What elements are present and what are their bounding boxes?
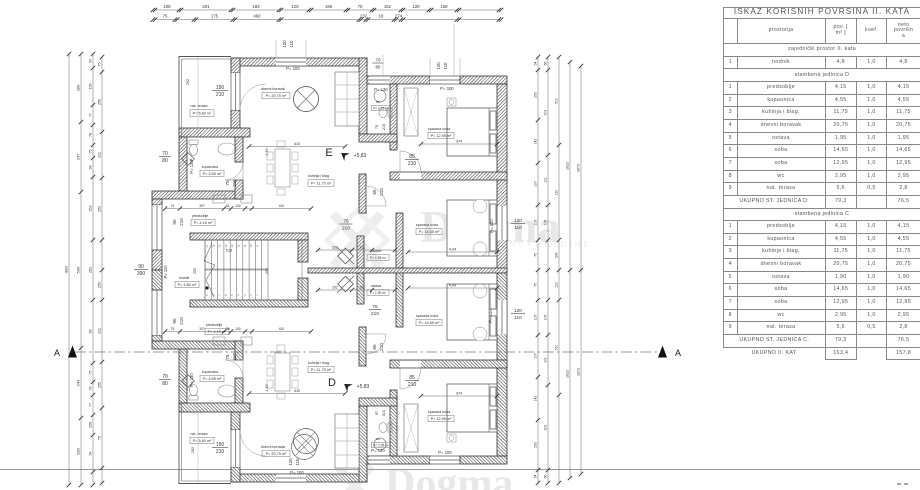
- svg-text:240: 240: [555, 252, 559, 258]
- svg-text:P= 4,55 m²: P= 4,55 m²: [203, 172, 222, 176]
- svg-text:4: 4: [237, 294, 241, 296]
- svg-text:210: 210: [408, 161, 417, 167]
- svg-text:P= 12,95 m²: P= 12,95 m²: [431, 134, 453, 138]
- svg-text:54: 54: [89, 452, 93, 456]
- svg-text:253: 253: [89, 206, 93, 212]
- svg-text:P= 20,75 m²: P= 20,75 m²: [266, 94, 288, 98]
- svg-text:77: 77: [89, 113, 93, 117]
- svg-text:1023: 1023: [566, 370, 570, 378]
- svg-text:120: 120: [555, 282, 559, 288]
- wardrobe bedroom E1 (E): [404, 88, 418, 136]
- svg-text:132: 132: [360, 14, 368, 19]
- svg-text:880: 880: [64, 265, 69, 272]
- svg-text:75: 75: [171, 204, 175, 208]
- svg-text:120: 120: [555, 190, 559, 196]
- bedroom E2 west wall lower (E): [396, 213, 403, 268]
- svg-text:210: 210: [232, 179, 237, 187]
- svg-text:110: 110: [443, 62, 448, 70]
- svg-text:4,49: 4,49: [265, 385, 269, 392]
- svg-text:P= 110: P= 110: [163, 265, 168, 279]
- svg-text:253: 253: [193, 268, 197, 274]
- svg-text:210: 210: [371, 311, 379, 317]
- door arc bedroom E1 (E): [400, 151, 421, 172]
- watermark dogma logo + text: [327, 201, 591, 490]
- window north-left 120/110 (E): [276, 58, 306, 66]
- svg-text:101: 101: [359, 246, 365, 250]
- svg-text:210: 210: [232, 353, 237, 361]
- svg-text:E: E: [325, 147, 332, 159]
- kitchen appliances row (E): [213, 195, 252, 203]
- svg-text:75: 75: [534, 253, 538, 257]
- svg-text:75: 75: [98, 436, 102, 440]
- svg-text:A: A: [675, 348, 681, 358]
- svg-text:210: 210: [379, 343, 384, 351]
- stair mid rail: [205, 269, 268, 270]
- svg-text:75: 75: [225, 354, 230, 360]
- svg-text:100: 100: [235, 204, 241, 208]
- bed bedroom E1 (E): [447, 108, 497, 156]
- svg-text:159: 159: [89, 422, 93, 428]
- svg-text:NEKRETNINE: NEKRETNINE: [510, 240, 592, 249]
- svg-text:3: 3: [243, 294, 247, 296]
- svg-text:28: 28: [226, 327, 230, 331]
- sheet edge line: [0, 469, 920, 471]
- svg-text:P= 4,15 m²: P= 4,15 m²: [208, 330, 227, 334]
- svg-text:80: 80: [376, 65, 381, 70]
- svg-text:nat. terasa: nat. terasa: [191, 432, 208, 436]
- svg-text:99: 99: [89, 330, 93, 334]
- armchair bedroom E2 b (E): [473, 242, 487, 256]
- svg-text:410: 410: [294, 142, 300, 146]
- svg-text:210: 210: [382, 124, 386, 130]
- svg-text:P= 100: P= 100: [488, 309, 493, 323]
- svg-text:P= 11,75 m²: P= 11,75 m²: [311, 182, 332, 186]
- right chain 4: [566, 60, 573, 480]
- svg-text:75: 75: [171, 327, 175, 331]
- svg-text:65: 65: [372, 189, 377, 195]
- svg-text:203: 203: [544, 110, 548, 116]
- svg-text:P= 100: P= 100: [438, 450, 452, 455]
- svg-text:70: 70: [376, 58, 381, 63]
- right chain 2: [544, 55, 551, 485]
- stair treads lower flight: [205, 270, 268, 300]
- svg-text:280: 280: [76, 84, 81, 91]
- corridor entry door diamond E (E): [337, 247, 354, 264]
- svg-text:120: 120: [291, 4, 299, 9]
- bedroom divider wall E (E): [390, 172, 507, 180]
- svg-text:predsoblje: predsoblje: [206, 323, 223, 327]
- svg-text:75: 75: [89, 150, 93, 154]
- svg-text:+5,83: +5,83: [354, 153, 367, 159]
- interior dim 374 E1: [419, 140, 499, 147]
- west facade wall mid pier (E): [152, 250, 162, 270]
- svg-text:70: 70: [162, 151, 168, 157]
- terrace door pier upper (E): [231, 58, 240, 73]
- svg-text:210: 210: [179, 218, 184, 226]
- svg-text:4,04: 4,04: [449, 284, 456, 288]
- west facade wall top pier (E): [152, 199, 162, 205]
- svg-text:14: 14: [224, 244, 228, 247]
- stair walk line: [204, 243, 215, 297]
- svg-text:120: 120: [514, 218, 522, 223]
- svg-text:P= 4,80 m²: P= 4,80 m²: [178, 283, 197, 287]
- east window bedroom E2 (E): [497, 206, 507, 240]
- svg-text:120: 120: [514, 308, 522, 313]
- svg-text:1023: 1023: [566, 162, 570, 170]
- svg-text:P= 11,75 m²: P= 11,75 m²: [311, 368, 332, 372]
- east facade wall upper half (E): [497, 84, 507, 270]
- svg-text:120: 120: [282, 40, 287, 48]
- svg-text:168: 168: [440, 4, 448, 9]
- interior dim 404 E: [406, 248, 499, 255]
- svg-text:203: 203: [544, 425, 548, 431]
- svg-text:ostava: ostava: [371, 284, 382, 288]
- svg-text:P= 5,60 m²: P= 5,60 m²: [193, 439, 212, 443]
- svg-text:54: 54: [534, 62, 538, 66]
- central party wall: [308, 268, 507, 273]
- bathroom sink (E): [218, 143, 236, 155]
- svg-text:120: 120: [288, 458, 293, 466]
- svg-text:105: 105: [544, 315, 548, 321]
- svg-text:253: 253: [265, 268, 269, 274]
- dining table (E): [275, 149, 290, 187]
- svg-text:75: 75: [225, 180, 230, 186]
- bathroom door diamond (E): [182, 153, 195, 166]
- svg-text:253: 253: [98, 282, 102, 288]
- window ext lines N: [276, 24, 460, 76]
- interior dim 374 D1: [419, 392, 499, 399]
- svg-text:460: 460: [253, 14, 261, 19]
- window north-right 120/110 (E): [430, 76, 460, 84]
- svg-text:90: 90: [172, 318, 177, 324]
- svg-text:P= 130: P= 130: [189, 373, 194, 387]
- kitchen counter (E): [335, 72, 359, 126]
- interior dim 410 living E: [247, 142, 347, 149]
- svg-text:210: 210: [408, 382, 417, 388]
- svg-text:54: 54: [89, 59, 93, 63]
- svg-text:222: 222: [98, 328, 102, 334]
- svg-text:predsoblje: predsoblje: [192, 214, 209, 218]
- svg-text:28: 28: [226, 204, 230, 208]
- stair tread numbers top: [205, 244, 259, 247]
- svg-text:10: 10: [249, 244, 253, 247]
- svg-text:253: 253: [98, 206, 102, 212]
- svg-text:56: 56: [544, 475, 548, 479]
- svg-text:193: 193: [252, 4, 260, 9]
- svg-text:A: A: [54, 348, 60, 358]
- bathroom south wall / west jog (E): [152, 191, 243, 199]
- svg-text:120: 120: [412, 4, 420, 9]
- svg-text:292: 292: [186, 79, 190, 85]
- svg-text:kupaonica: kupaonica: [202, 165, 218, 169]
- svg-text:2: 2: [249, 294, 253, 296]
- dining chairs (E): [267, 141, 298, 195]
- svg-text:4,49: 4,49: [265, 149, 269, 156]
- north wall left segment (dnevni boravak) (E): [231, 58, 367, 66]
- wc south wall (E): [359, 134, 397, 142]
- svg-text:1673: 1673: [577, 368, 581, 376]
- svg-text:15: 15: [218, 244, 222, 247]
- svg-text:P= 100: P= 100: [290, 470, 304, 475]
- svg-text:wc: wc: [376, 100, 380, 104]
- svg-text:5: 5: [230, 294, 234, 296]
- bathroom toilet (E): [189, 140, 198, 156]
- svg-text:274: 274: [395, 14, 403, 19]
- svg-text:85: 85: [409, 154, 415, 160]
- svg-text:Dogma: Dogma: [385, 461, 513, 490]
- stair door dot: [205, 286, 208, 289]
- interior dim 202/101 hall: [316, 246, 397, 253]
- svg-text:292: 292: [191, 447, 195, 453]
- svg-text:80: 80: [162, 381, 168, 387]
- stairwell top wall (E): [190, 233, 308, 240]
- svg-text:1: 1: [255, 294, 259, 296]
- svg-text:410: 410: [279, 327, 285, 331]
- stair treads upper flight: [205, 240, 268, 270]
- svg-text:dnevni boravak: dnevni boravak: [261, 445, 286, 449]
- svg-text:90: 90: [172, 219, 177, 225]
- bathroom west wall (E): [179, 137, 187, 191]
- svg-text:P= 1,90 m²: P= 1,90 m²: [370, 291, 386, 295]
- svg-text:101: 101: [544, 177, 548, 183]
- top dim chain outer: [151, 4, 504, 12]
- svg-text:7: 7: [218, 294, 222, 296]
- svg-text:247: 247: [76, 379, 81, 386]
- round dining table (E): [294, 87, 319, 112]
- svg-text:101: 101: [544, 357, 548, 363]
- svg-text:410: 410: [279, 204, 285, 208]
- interior dim row D: [163, 327, 313, 334]
- svg-text:18: 18: [379, 14, 384, 19]
- svg-text:P= 4,55 m²: P= 4,55 m²: [203, 377, 222, 381]
- wc window P=130 (E): [369, 76, 390, 84]
- svg-text:110: 110: [514, 315, 522, 320]
- svg-text:75: 75: [98, 63, 102, 67]
- svg-text:202: 202: [332, 246, 338, 250]
- svg-text:13: 13: [230, 244, 234, 247]
- svg-text:150: 150: [216, 85, 225, 91]
- svg-text:56: 56: [544, 62, 548, 66]
- svg-text:110: 110: [289, 40, 294, 48]
- terrace door pier lower (E): [231, 110, 240, 137]
- svg-text:105: 105: [534, 315, 538, 321]
- svg-text:D: D: [328, 377, 336, 389]
- armchair bedroom E2 a (E): [473, 199, 487, 213]
- svg-text:6: 6: [224, 294, 228, 296]
- svg-text:78: 78: [89, 133, 93, 137]
- svg-text:255: 255: [98, 99, 102, 105]
- round table E: [294, 87, 319, 112]
- svg-text:wc: wc: [376, 437, 380, 441]
- svg-text:75: 75: [375, 411, 379, 415]
- svg-text:75: 75: [375, 125, 379, 129]
- stair outline: [205, 240, 302, 300]
- section line A-A: [75, 351, 660, 353]
- svg-text:280: 280: [76, 447, 81, 454]
- svg-text:210: 210: [216, 92, 225, 98]
- svg-text:9: 9: [255, 245, 259, 247]
- north wall right segment (E): [460, 76, 507, 84]
- svg-text:spavaća soba: spavaća soba: [428, 127, 450, 131]
- svg-text:107: 107: [534, 181, 538, 187]
- svg-text:110: 110: [295, 458, 300, 466]
- svg-text:210: 210: [342, 226, 350, 232]
- svg-text:110: 110: [514, 225, 522, 230]
- svg-text:12: 12: [237, 244, 241, 247]
- svg-text:P= 100: P= 100: [440, 86, 454, 91]
- svg-text:152: 152: [384, 4, 392, 9]
- round table D: [292, 435, 317, 460]
- svg-text:4,04: 4,04: [449, 248, 456, 252]
- svg-text:210: 210: [216, 449, 225, 455]
- svg-text:P= 14,65 m²: P= 14,65 m²: [419, 230, 441, 234]
- svg-text:142: 142: [534, 396, 538, 402]
- terrace ext line D: [197, 403, 199, 483]
- svg-text:54: 54: [534, 475, 538, 479]
- svg-text:142: 142: [534, 139, 538, 145]
- unit D geometry (mirror of E): [152, 270, 507, 484]
- west window upper (E): [152, 205, 162, 250]
- wc east wall (E): [390, 84, 397, 150]
- svg-text:210: 210: [382, 410, 386, 416]
- svg-text:P= 100: P= 100: [286, 66, 300, 71]
- svg-text:410: 410: [294, 389, 300, 393]
- svg-text:spavaća soba: spavaća soba: [416, 314, 438, 318]
- left chain 2: [76, 52, 84, 487]
- svg-text:105: 105: [544, 220, 548, 226]
- svg-text:255: 255: [98, 382, 102, 388]
- svg-text:5,33: 5,33: [226, 249, 233, 253]
- terrace ext line E: [197, 57, 199, 137]
- svg-text:210: 210: [179, 317, 184, 325]
- svg-text:P= 130: P= 130: [371, 448, 385, 453]
- svg-text:P= 20,75 m²: P= 20,75 m²: [266, 452, 288, 456]
- svg-text:77: 77: [89, 403, 93, 407]
- svg-text:75: 75: [163, 14, 168, 19]
- svg-text:P= 2,95 m²: P= 2,95 m²: [373, 444, 389, 448]
- bedroom door gap wall E (E): [400, 173, 421, 180]
- svg-text:70: 70: [162, 374, 168, 380]
- svg-text:78: 78: [89, 387, 93, 391]
- svg-text:253: 253: [534, 92, 538, 98]
- svg-text:+5,83: +5,83: [357, 384, 370, 390]
- terrace bottom wall (E): [179, 128, 250, 137]
- svg-text:80: 80: [162, 158, 168, 164]
- stair tread numbers bottom: [205, 294, 259, 296]
- terrace balcony door 150/210 (E): [231, 73, 240, 110]
- svg-text:101: 101: [359, 286, 365, 290]
- left chain 3: [89, 52, 96, 487]
- svg-text:P= 14,65 m²: P= 14,65 m²: [419, 321, 441, 325]
- svg-text:195: 195: [325, 4, 333, 9]
- svg-text:P= 4,15 m²: P= 4,15 m²: [194, 221, 213, 225]
- svg-text:374: 374: [456, 392, 462, 396]
- svg-text:dnevni boravak: dnevni boravak: [261, 87, 286, 91]
- svg-text:150: 150: [216, 442, 225, 448]
- svg-text:P= 5,60 m²: P= 5,60 m²: [193, 112, 212, 116]
- svg-text:253: 253: [89, 267, 93, 273]
- bed bedroom E2 (E): [447, 200, 497, 256]
- svg-text:75: 75: [372, 304, 378, 310]
- top dim chain inner: [151, 14, 504, 22]
- interior dim 404 D: [406, 284, 499, 291]
- svg-text:P= 100: P= 100: [489, 219, 494, 233]
- svg-text:108: 108: [163, 4, 171, 9]
- bottom right corner mark: [897, 483, 908, 485]
- svg-text:P= 130: P= 130: [374, 87, 388, 92]
- interior dim row E: [163, 204, 313, 211]
- svg-text:P= 1,95 m²: P= 1,95 m²: [370, 256, 386, 260]
- svg-text:374: 374: [456, 140, 462, 144]
- svg-text:99: 99: [89, 166, 93, 170]
- svg-text:100: 100: [235, 327, 241, 331]
- svg-text:spavaća soba: spavaća soba: [416, 223, 438, 227]
- bathroom east wall lower (E): [235, 180, 243, 199]
- north wall middle segment (E): [359, 76, 430, 84]
- svg-text:nat. terasa: nat. terasa: [191, 104, 208, 108]
- svg-text:75: 75: [343, 219, 349, 225]
- left chain 1: [64, 52, 72, 487]
- door arc bathroom (E): [225, 162, 243, 180]
- bedroom E2 west wall upper (E): [359, 174, 366, 213]
- wall jog living/wc (E): [359, 58, 367, 134]
- svg-text:222: 222: [98, 152, 102, 158]
- svg-text:596: 596: [76, 266, 81, 273]
- svg-text:11: 11: [243, 244, 247, 247]
- door arc wc (E): [366, 186, 386, 206]
- nightstand bedroom E1 (E): [447, 98, 456, 106]
- svg-text:70: 70: [358, 4, 363, 9]
- svg-text:16: 16: [211, 244, 215, 247]
- svg-text:kupaonica: kupaonica: [202, 370, 218, 374]
- svg-text:85: 85: [409, 375, 415, 381]
- svg-text:1673: 1673: [577, 164, 581, 172]
- right chain 1: [534, 55, 541, 485]
- corridor east wall (E): [357, 236, 364, 268]
- svg-text:75: 75: [534, 283, 538, 287]
- terrace parapet (E): [179, 57, 231, 140]
- svg-text:kuhinja i blag.: kuhinja i blag.: [308, 361, 330, 365]
- svg-text:175: 175: [211, 14, 219, 19]
- bathroom east wall upper (E): [235, 137, 243, 162]
- svg-text:307: 307: [199, 327, 205, 331]
- left chain 4: [98, 55, 105, 485]
- svg-text:spavaća soba: spavaća soba: [428, 410, 450, 414]
- svg-text:75: 75: [89, 371, 93, 375]
- wc sink (E): [374, 90, 386, 102]
- svg-text:105: 105: [534, 220, 538, 226]
- svg-text:hodnik: hodnik: [179, 276, 190, 280]
- svg-text:510: 510: [555, 345, 559, 351]
- svg-text:159: 159: [89, 84, 93, 90]
- svg-text:307: 307: [199, 204, 205, 208]
- svg-text:120: 120: [436, 62, 441, 70]
- svg-text:201: 201: [202, 4, 210, 9]
- svg-text:8: 8: [211, 294, 215, 296]
- svg-text:107: 107: [534, 353, 538, 359]
- svg-text:17: 17: [205, 244, 209, 247]
- svg-text:P= 2,95 m²: P= 2,95 m²: [373, 107, 389, 111]
- svg-text:P= 12,95 m²: P= 12,95 m²: [431, 417, 453, 421]
- stairwell east wall upper (E): [298, 240, 308, 262]
- wc toilet (E): [379, 108, 392, 118]
- interior dim 410 living D: [247, 389, 347, 396]
- svg-text:kuhinja i blag.: kuhinja i blag.: [308, 174, 330, 178]
- svg-text:510: 510: [555, 98, 559, 104]
- right chain 5: [577, 64, 584, 476]
- interior dim hall D: [316, 286, 397, 293]
- svg-text:90: 90: [138, 264, 144, 270]
